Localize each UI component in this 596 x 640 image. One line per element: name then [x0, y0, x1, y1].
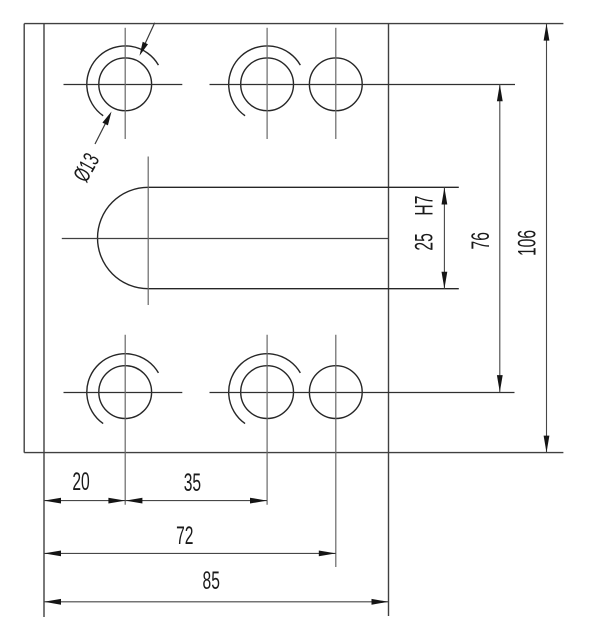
centerline B1 vertical (extends down as extension for 20/35) — [124, 335, 126, 505]
svg-text:106: 106 — [514, 230, 542, 256]
dimension 76 bottom arrow — [497, 375, 503, 392]
dimension 20 line — [44, 500, 125, 502]
svg-text:76: 76 — [467, 232, 495, 249]
dimension 25 H7 bottom arrow — [442, 272, 448, 289]
dimension 35 right arrow — [250, 498, 267, 504]
dimension 72 left arrow — [44, 551, 61, 557]
hole T2 inner circle — [241, 58, 294, 111]
slot top edge (extends right as extension line for 25 H7) — [148, 186, 459, 188]
centerline T2 vertical — [266, 28, 268, 139]
dimension 106 line — [546, 24, 548, 453]
hole T2 outer arc — [229, 46, 301, 116]
leader arrow for diameter 13 — [102, 112, 111, 126]
dimension 35 left arrow — [125, 498, 142, 504]
dimension 85 right arrow — [372, 599, 389, 605]
dimension 20 right arrow — [108, 498, 125, 504]
svg-text:25: 25 — [411, 233, 439, 250]
plate right edge (extends down as extension line for 85) — [388, 24, 390, 616]
dimension 106 bottom arrow — [544, 436, 550, 453]
svg-text:85: 85 — [203, 568, 220, 596]
dimension 25 H7 top arrow — [442, 188, 448, 205]
centerline T1 vertical — [124, 28, 126, 139]
svg-text:H7: H7 — [411, 196, 439, 216]
svg-text:72: 72 — [176, 522, 193, 550]
dimension 72 right arrow — [319, 551, 336, 557]
hole T3 inner circle — [309, 58, 362, 111]
dimension 76 line — [499, 84, 501, 392]
plate left edge — [23, 24, 25, 453]
slot bottom edge (extends right as extension line for 25 H7) — [148, 288, 459, 290]
leader arrow from top edge — [140, 42, 149, 56]
centerline slot vertical — [147, 157, 149, 306]
centerline B3 vertical (extends down as extension for 72) — [335, 335, 337, 567]
leader line for diameter 13 — [95, 118, 108, 144]
centerline slot horizontal — [62, 238, 388, 240]
hole B3 inner circle — [309, 366, 362, 419]
plate bottom edge (extends right as extension line for 106) — [24, 452, 563, 454]
dimension 85 line — [44, 601, 389, 603]
hole B2 outer arc — [229, 354, 301, 424]
hole T1 outer arc — [87, 46, 159, 116]
dimension 20 left arrow — [44, 498, 61, 504]
svg-text:35: 35 — [184, 469, 201, 497]
centerline row1 horizontal segment a — [64, 84, 183, 86]
hole T1 inner circle — [99, 58, 152, 111]
svg-text:Ø13: Ø13 — [69, 149, 106, 186]
centerline row2 horizontal segment b (extends right as extension for 76) — [210, 392, 515, 394]
centerline row2 horizontal segment a — [64, 392, 183, 394]
dimension 35 line — [125, 500, 267, 502]
plate fold line x=44 (extends down as extension line for 20/72/85) — [43, 24, 45, 617]
slot left semicircle — [98, 187, 149, 288]
dimension 72 line — [44, 552, 336, 554]
svg-text:20: 20 — [72, 468, 89, 496]
centerline T3 vertical — [335, 28, 337, 139]
hole B2 inner circle — [241, 366, 294, 419]
dimension 85 left arrow — [44, 599, 61, 605]
dimension 25 H7 line — [443, 188, 445, 289]
hole B1 inner circle — [99, 366, 152, 419]
dimension 106 top arrow — [544, 24, 550, 41]
hole B1 outer arc — [87, 354, 159, 424]
dimension 76 top arrow — [497, 84, 503, 101]
centerline B2 vertical (extends down as extension for 35) — [266, 335, 268, 505]
centerline row1 horizontal segment b (extends right as extension for 76) — [210, 84, 516, 86]
plate top edge (extends right as extension line for 106) — [24, 23, 563, 25]
leader line from top edge — [143, 23, 155, 50]
